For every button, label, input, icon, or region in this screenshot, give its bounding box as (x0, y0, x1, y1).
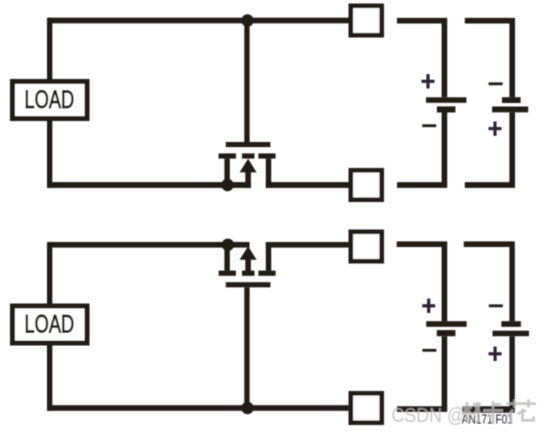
wire top rail (circuit 1) (47, 18, 350, 24)
terminal box T2 (351, 170, 382, 199)
wire battery loop 1 top (circuit 2) (397, 241, 448, 321)
wire battery loop 1 top (circuit 1) (397, 18, 447, 97)
transistor Q2 middle channel cap (242, 271, 255, 276)
transistor Q2 body arrow head (240, 246, 257, 260)
wire bottom rail right segment (circuit 1) (266, 182, 351, 188)
wire left vertical lower (circuit 1) (47, 121, 52, 188)
transistor Q1 drain stub (266, 159, 271, 188)
watermark CSDN text (392, 399, 537, 427)
battery B2 positive long plate (492, 107, 528, 113)
transistor Q2 left channel cap (219, 271, 236, 276)
node junction dot on top rail (circuit 1) (241, 14, 253, 26)
transistor Q2 right channel cap (258, 271, 275, 276)
wire battery loop 2 top (circuit 2) (464, 241, 515, 321)
transistor Q1 source stub (224, 159, 229, 186)
label plus sign B3 (422, 299, 435, 313)
wire battery loop 2 top (circuit 1) (465, 18, 515, 97)
wire gate vertical (circuit 2) (244, 287, 249, 407)
transistor Q2 gate bar (226, 282, 271, 287)
transistor Q2 body arrow shaft (245, 259, 251, 271)
label minus sign B3 (422, 349, 436, 352)
node junction dot on bottom rail (circuit 2) (241, 402, 253, 414)
battery B4 negative short plate (501, 321, 521, 327)
svg-text:AN171 F01: AN171 F01 (462, 414, 513, 427)
transistor Q1 body arrow head (240, 159, 257, 173)
battery B4 positive long plate (493, 331, 530, 337)
label minus sign B2 (489, 82, 503, 85)
wire gate vertical (circuit 1) (244, 22, 249, 143)
label minus sign B4 (489, 304, 503, 307)
wire left vertical lower (circuit 2) (47, 345, 52, 411)
wire bottom rail left segment (circuit 1) (47, 182, 251, 188)
wire battery loop 2 bottom (circuit 2) (462, 336, 514, 413)
svg-text:CSDN @: CSDN @ (392, 405, 466, 427)
watermark glyph ka (483, 401, 503, 424)
battery B1 positive long plate (426, 97, 466, 103)
label plus sign B4 (489, 347, 502, 361)
battery B3 positive long plate (426, 321, 466, 327)
node junction dot on bottom rail (circuit 1) (221, 179, 233, 191)
terminal box T1 (351, 6, 382, 35)
transistor Q1 right channel cap (258, 153, 275, 158)
load box LOAD1 (13, 82, 88, 119)
wire battery loop 1 bottom (circuit 1) (397, 113, 447, 188)
wire left vertical upper (circuit 1) (47, 18, 52, 81)
svg-text:LOAD: LOAD (25, 85, 75, 113)
terminal box T4 (351, 393, 382, 422)
transistor Q2 source stub (224, 248, 229, 271)
label plus sign B2 (489, 121, 502, 135)
label minus sign B1 (422, 124, 436, 127)
load box LOAD2 (13, 306, 88, 343)
transistor Q1 body arrow shaft (245, 171, 251, 188)
wire bottom rail (circuit 2) (47, 405, 350, 411)
battery B1 negative short plate (437, 106, 456, 112)
battery B3 negative short plate (437, 330, 456, 336)
transistor Q2 drain stub (266, 242, 271, 271)
transistor Q1 left channel cap (219, 153, 237, 158)
watermark glyph shu (463, 402, 482, 423)
wire battery loop 1 bottom (circuit 2) (397, 336, 447, 412)
node junction dot on top rail (circuit 2) (222, 239, 234, 251)
transistor Q1 gate bar (226, 142, 271, 147)
wire top rail right segment (circuit 2) (266, 242, 351, 248)
terminal box T3 (351, 232, 382, 261)
wire battery loop 2 bottom (circuit 1) (465, 112, 515, 188)
svg-text:LOAD: LOAD (25, 310, 75, 338)
transistor Q1 middle channel cap (242, 153, 255, 158)
battery B2 negative short plate (502, 97, 521, 103)
wire top rail left segment (circuit 2) (47, 242, 250, 248)
watermark glyph hua (507, 399, 537, 424)
label plus sign B1 (422, 74, 435, 88)
wire left vertical upper (circuit 2) (47, 242, 52, 305)
